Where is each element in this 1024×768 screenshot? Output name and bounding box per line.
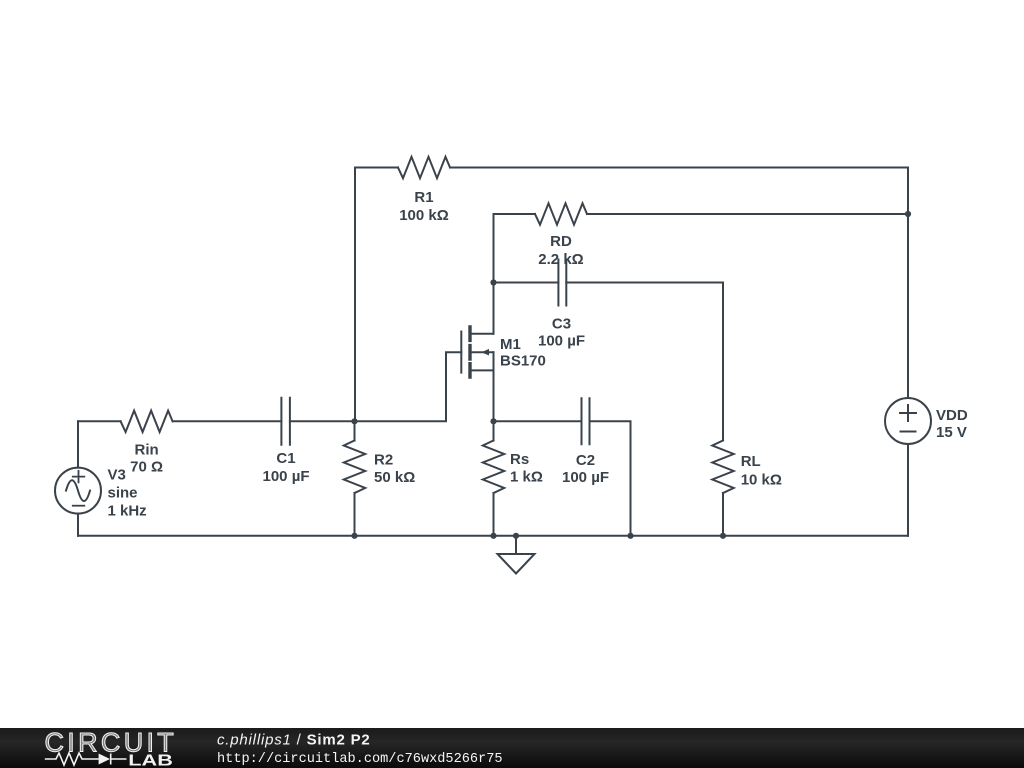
wire C2 branch: [494, 421, 631, 536]
node drain/C3: [490, 279, 496, 285]
wire VDD bottom lead: [907, 444, 909, 536]
svg-text:Rs: Rs: [510, 451, 529, 468]
source VDD: [885, 398, 931, 444]
svg-text:2.2 kΩ: 2.2 kΩ: [538, 251, 583, 268]
ground: [515, 536, 517, 554]
svg-text:LAB: LAB: [128, 753, 173, 768]
wire V3 top lead: [77, 421, 79, 467]
svg-text:10 kΩ: 10 kΩ: [741, 471, 782, 488]
svg-text:c.phillips1 / Sim2 P2: c.phillips1 / Sim2 P2: [217, 731, 371, 748]
svg-text:100 µF: 100 µF: [263, 468, 310, 485]
resistor R2: [354, 421, 356, 440]
source V3: [55, 468, 101, 514]
wire top rail from R1 to VDD: [355, 168, 908, 399]
capacitor C3: [558, 260, 566, 306]
wire V3 bottom lead: [77, 514, 79, 536]
wire bottom rail: [78, 535, 908, 537]
svg-text:BS170: BS170: [500, 353, 546, 370]
wire drain vertical: [493, 214, 495, 334]
resistor RL: [712, 441, 733, 494]
wire source/body vertical: [493, 352, 495, 440]
transistor M1: [460, 332, 462, 373]
logo squiggle: [45, 753, 127, 765]
node Rs bottom: [490, 533, 496, 539]
node R2 top: [351, 418, 357, 424]
svg-text:70 Ω: 70 Ω: [130, 459, 163, 476]
svg-text:C1: C1: [276, 450, 295, 467]
node RL bottom: [720, 533, 726, 539]
svg-text:M1: M1: [500, 336, 521, 353]
svg-text:Rin: Rin: [135, 442, 159, 459]
svg-text:100 kΩ: 100 kΩ: [399, 207, 449, 224]
node source/C2: [490, 418, 496, 424]
node R2 bottom: [351, 533, 357, 539]
node RD/VDD: [905, 211, 911, 217]
svg-text:50 kΩ: 50 kΩ: [374, 469, 415, 486]
svg-text:1 kΩ: 1 kΩ: [510, 469, 543, 486]
svg-text:100 µF: 100 µF: [562, 469, 609, 486]
wire input rail: [78, 352, 461, 421]
svg-text:RL: RL: [741, 453, 761, 470]
svg-text:1 kHz: 1 kHz: [108, 503, 147, 520]
resistor Rs: [483, 441, 504, 494]
resistor Rin: [121, 411, 173, 432]
capacitor C2: [582, 398, 590, 444]
svg-text:R1: R1: [414, 189, 433, 206]
svg-text:http://circuitlab.com/c76wxd52: http://circuitlab.com/c76wxd5266r75: [217, 752, 503, 767]
svg-text:100 µF: 100 µF: [538, 333, 585, 350]
node C2 bottom: [627, 533, 633, 539]
wire C3 branch: [494, 283, 724, 441]
junction dots: [351, 211, 911, 539]
svg-text:R2: R2: [374, 452, 393, 469]
capacitor C1: [281, 398, 290, 445]
svg-text:V3: V3: [108, 467, 126, 484]
svg-text:C3: C3: [552, 316, 571, 333]
node ground: [513, 533, 519, 539]
resistor R1: [398, 157, 450, 178]
resistor RD: [535, 203, 587, 224]
svg-text:VDD: VDD: [936, 407, 968, 424]
svg-text:15 V: 15 V: [936, 424, 967, 441]
svg-text:sine: sine: [108, 485, 138, 502]
svg-text:C2: C2: [576, 452, 595, 469]
transistor M1 body arrow: [482, 349, 490, 356]
wire RD rail: [494, 213, 909, 215]
svg-text:RD: RD: [550, 233, 572, 250]
wire left vertical R1 to input node: [354, 168, 356, 422]
